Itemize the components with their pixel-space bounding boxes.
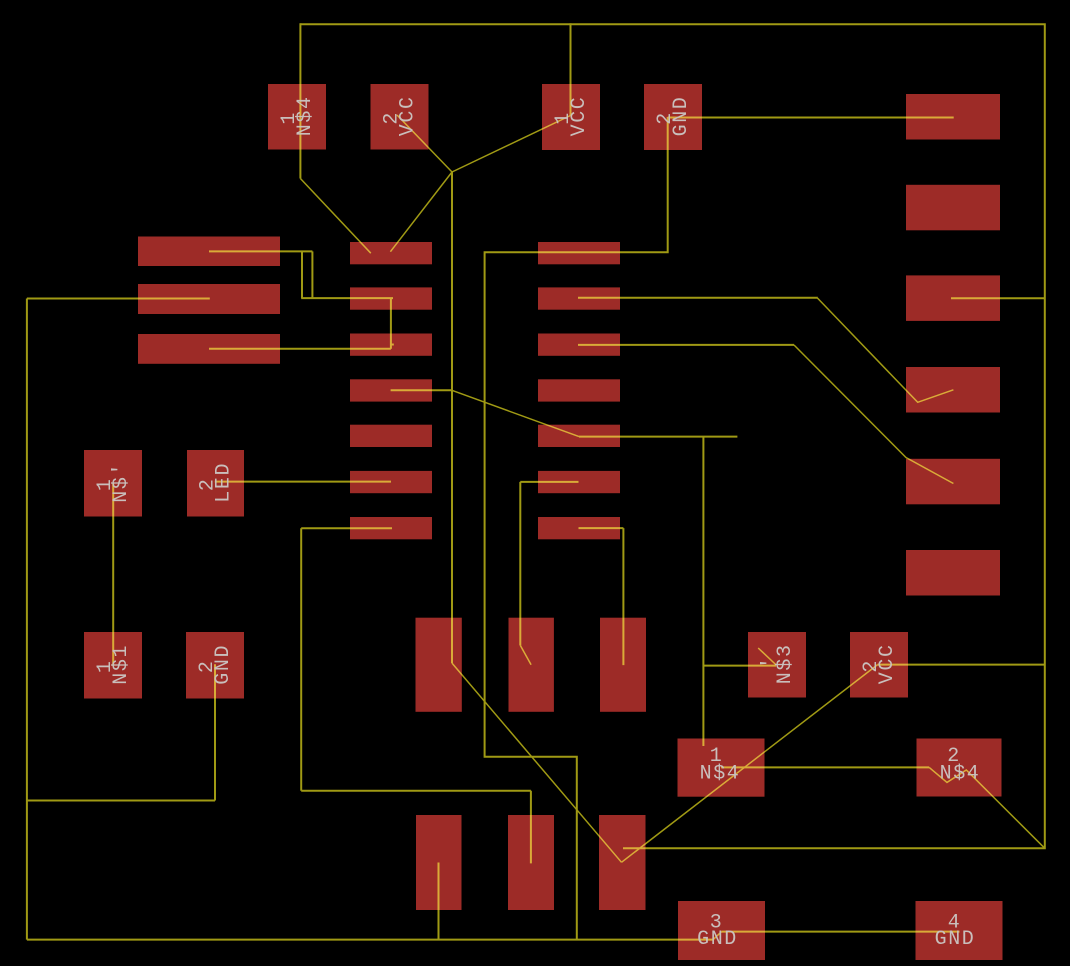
svg-text:N$4: N$4 [294,95,317,136]
pad X1.4 GND [916,901,1003,960]
wire LED to IC-L row6 [215,481,391,483]
wire diag IC-R row2 to header pad4 [817,298,953,402]
wire IC-R row2 horizontal [578,297,818,299]
svg-text:LED: LED [213,462,236,503]
pad U3.2 GND (top square) [644,84,702,150]
IC right pad row 3 [538,334,620,356]
label pad Q1.2 [860,659,883,673]
wire IC-L row4 horizontal [391,389,452,391]
center vertical pad A [416,618,462,712]
IC left pad row 3 [350,334,432,356]
wire GND long route left/down [485,117,668,940]
wire left border [26,299,28,940]
label pad R1.1 [94,659,117,673]
wire to N$3 pad [703,665,776,667]
svg-text:VCC: VCC [568,96,591,137]
svg-text:GND: GND [212,644,235,685]
wire bar3 to IC-L row3 [209,348,391,350]
svg-text:N$4: N$4 [940,762,981,785]
right header pad 2 [906,185,1000,231]
wire jog to IC-L row2 [301,297,393,299]
right header pad 6 [906,550,1000,596]
label pad R1.2 [196,659,219,673]
wire diag bottom jog [713,932,721,940]
wire R1 GND down [214,664,216,800]
wire diag VCC vertical to pad F [452,663,622,862]
pad X1.2 N$4 [917,739,1002,797]
wire vertical to X1.1 [702,437,704,746]
IC right pad row 5 [538,425,620,447]
label pad D1.1 [94,477,117,491]
wire N$4 link horizontal [721,766,929,768]
wire right header pad3 to border [951,297,1045,299]
wire IC-R row5 horizontal [579,436,737,438]
IC right pad row 2 [538,287,620,309]
wire jog vertical a [301,251,303,298]
svg-text:GND: GND [670,96,693,137]
IC right pad row 6 [538,471,620,493]
pad R1.1 N$1 [84,632,142,699]
wire GND to left border [28,800,216,802]
wire jog vertical b [311,251,313,298]
wire diag junction to VCC1 drop [452,116,571,173]
wire pad D to bottom border [438,863,440,940]
connector bar J1.2 [138,284,280,314]
wire diag IC-R row3 to header pad5 [794,345,953,484]
IC left pad row 6 [350,471,432,493]
wire diag row6 drop to pad B [520,645,531,664]
svg-text:VCC: VCC [876,643,899,684]
bottom vertical pad D [416,815,462,910]
wire GND3 to GND4 [722,931,960,933]
wire diag N$3 stub [758,648,776,665]
connector bar J1.3 [138,334,280,364]
svg-text:N$4: N$4 [700,762,741,785]
IC right pad row 4 [538,379,620,401]
IC left pad row 4 [350,379,432,401]
wire diag junction to IC-L row1 [390,172,452,252]
wire net VCC top+right border [300,24,1044,848]
label pad U2.1 [278,111,301,125]
pad R1.2 GND [186,632,244,699]
IC left pad row 1 [350,242,432,264]
wire IC-R row3 horizontal [578,344,794,346]
wire row7 vertical to pad C [622,528,624,665]
wire diag VCC2 pad to pad F [622,665,878,863]
wire row7 vertical down [300,528,302,791]
wire VCC center vertical [451,172,453,663]
wire VCC2 to right border [878,664,1045,666]
IC left pad row 7 [350,517,432,539]
wire IC-R row6 horizontal [520,481,578,483]
wire pad E drop [530,791,532,864]
label pad U3.1 [552,111,575,125]
right header pad 3 [906,275,1000,321]
wire GND to right header pad1 [668,117,954,119]
IC right pad row 1 [538,242,620,264]
wire IC-R row7 horizontal [579,527,624,529]
svg-text:GND: GND [935,928,976,951]
IC right pad row 7 [538,517,620,539]
pad D1.1 N$5 [84,450,142,517]
wire bar2 to left border [27,298,210,300]
center vertical pad B [509,618,554,712]
wire IC-L row2/3 vertical [390,298,392,349]
IC left pad row 5 [350,425,432,447]
pad X1.1 N$4 [678,739,765,797]
pad Q1.1 N$3 [748,632,806,698]
IC left pad row 2 [350,287,432,309]
wire diag row4 to IC-R row5 [452,390,579,436]
connector bar J1.1 [138,237,280,267]
wire IC-L row7 horizontal [301,527,392,529]
svg-text:N$3: N$3 [774,643,797,684]
center vertical pad C [600,618,646,712]
right header pad 5 [906,459,1000,505]
wire VCC1 pad drop [570,23,572,115]
label pad U2.2 [381,111,404,125]
svg-text:N$': N$' [110,462,133,503]
wire bar1 jog horizontal [209,250,312,252]
pad U2.2 VCC (top square) [371,84,429,150]
svg-text:GND: GND [697,928,738,951]
svg-text:N$1: N$1 [110,644,133,685]
pad Q1.2 VCC [850,632,908,698]
right header pad 1 [906,94,1000,140]
wire diag N$4 drop to IC-L row1 [300,179,370,254]
bottom vertical pad E [508,815,554,910]
label pad Q1.1 [759,655,782,669]
wire N$4 pad drop [299,23,301,178]
wire diag junction to VCC2 pad [397,115,452,172]
wire row3 stub [391,344,394,346]
bottom vertical pad F [599,815,646,910]
pad U3.1 VCC (top square) [542,84,600,150]
label pad U3.2 [654,111,677,125]
svg-text:VCC: VCC [397,95,420,136]
wire diag N$4b zigzag to corner [929,767,1045,848]
wire to pad E horizontal [301,790,531,792]
right header pad 4 [906,367,1000,413]
pad D1.2 LED [187,450,244,517]
pad U2.1 N$4 (top-left square) [268,84,326,150]
wire N$5 to N$1 [112,483,114,666]
wire bottom border GND [27,939,713,941]
wire row6 vertical down [519,482,521,646]
pad X1.3 GND [678,901,765,960]
label pad D1.2 [197,477,220,491]
